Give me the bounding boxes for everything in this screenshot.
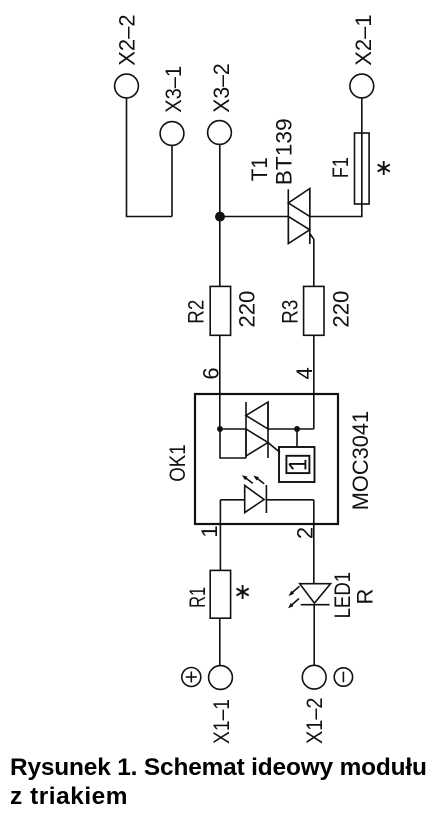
LED1 xyxy=(288,584,331,609)
svg-text:F1: F1 xyxy=(328,157,353,178)
wire internal LED anode xyxy=(220,499,244,501)
resistor R2 xyxy=(210,286,230,335)
svg-text:220: 220 xyxy=(329,291,354,328)
svg-text:R1: R1 xyxy=(185,587,210,608)
svg-text:X3–2: X3–2 xyxy=(209,63,234,112)
wire internal left xyxy=(220,428,246,430)
resistor R3 xyxy=(304,286,324,335)
svg-text:R3: R3 xyxy=(278,300,303,324)
wire R3 to OK1 pin 4 xyxy=(313,335,315,429)
wire pin 1 xyxy=(219,500,221,571)
wire internal LED cathode xyxy=(266,499,313,501)
wire pin 2 xyxy=(313,500,315,584)
caption xyxy=(10,754,442,811)
svg-text:220: 220 xyxy=(235,291,260,328)
svg-text:6: 6 xyxy=(198,367,223,379)
label R1 asterisk xyxy=(237,585,249,599)
svg-text:4: 4 xyxy=(292,367,317,379)
wire X3-1 drop xyxy=(171,146,173,217)
internal LED xyxy=(242,475,267,513)
svg-text:LED1: LED1 xyxy=(330,572,355,619)
svg-text:1: 1 xyxy=(197,525,222,537)
node dot detector xyxy=(294,426,300,432)
connector X1-2 xyxy=(302,665,326,689)
plus symbol xyxy=(182,668,201,687)
internal photo-triac xyxy=(246,402,280,458)
svg-text:X1–2: X1–2 xyxy=(302,698,327,745)
fuse F1 xyxy=(355,133,370,204)
connector X3-2 xyxy=(208,121,232,145)
wire internal left L xyxy=(220,429,246,458)
label F1 asterisk xyxy=(378,161,390,175)
resistor R1 xyxy=(210,570,230,618)
wire X3-2 down to R2 xyxy=(219,145,221,287)
detector box with 1 xyxy=(279,447,315,482)
wire X2-2 drop xyxy=(127,98,173,217)
svg-text:X1–1: X1–1 xyxy=(209,699,234,744)
triac T1 xyxy=(288,189,314,287)
svg-text:OK1: OK1 xyxy=(165,444,190,482)
svg-text:X2–1: X2–1 xyxy=(351,14,376,66)
connector X2-2 xyxy=(115,74,139,98)
node dot pin6 internal xyxy=(217,426,223,432)
svg-text:R: R xyxy=(353,589,378,605)
svg-text:BT139: BT139 xyxy=(271,118,296,185)
wire R1 to X1-1 xyxy=(219,618,221,665)
optocoupler OK1 box xyxy=(195,394,338,524)
svg-text:X3–1: X3–1 xyxy=(161,66,186,113)
wire R2 to OK1 pin 6 xyxy=(219,335,221,429)
svg-text:X2–2: X2–2 xyxy=(115,14,140,66)
minus symbol xyxy=(334,668,352,686)
svg-text:MOC3041: MOC3041 xyxy=(348,411,373,511)
wire dot to detector box xyxy=(296,429,298,447)
connector X2-1 xyxy=(350,74,374,98)
wire internal right xyxy=(268,428,314,430)
svg-text:R2: R2 xyxy=(183,300,208,324)
wire X2-1 through fuse xyxy=(310,98,362,217)
connector X1-1 xyxy=(209,666,233,690)
node junction xyxy=(215,212,225,222)
wire junction to triac MT2 xyxy=(220,216,288,218)
svg-text:2: 2 xyxy=(292,527,317,539)
svg-text:T1: T1 xyxy=(247,157,272,181)
wire LED1 to X1-2 xyxy=(313,605,315,666)
connector X3-1 xyxy=(160,122,184,146)
